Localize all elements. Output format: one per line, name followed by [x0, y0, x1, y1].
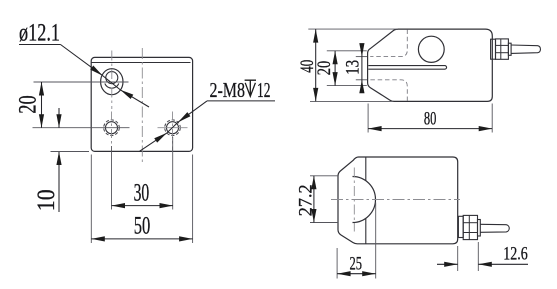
depth symbol — [245, 80, 256, 96]
body outline — [338, 157, 458, 244]
svg-text:ø12.1: ø12.1 — [19, 20, 60, 47]
small hole right horizontal centerline — [158, 127, 188, 129]
plate top inner edge line — [91, 62, 190, 64]
dimension 50 dim line — [91, 238, 192, 240]
hidden corner pocket top (dashed) — [370, 30, 407, 57]
dim 12.6 outside arrows — [437, 263, 458, 265]
plate bottom edge left extension line — [51, 151, 90, 153]
leader ø12.1 arrow segment — [61, 45, 103, 76]
small hole right vertical centerline — [172, 112, 174, 153]
dim 13 extensions — [356, 56, 367, 58]
svg-text:30: 30 — [134, 180, 150, 207]
cable gland neck (bottom view) — [478, 220, 481, 237]
small hole left outer — [104, 120, 120, 136]
boss semicircle — [353, 177, 376, 223]
dim 25 dim line — [337, 273, 376, 275]
svg-text:80: 80 — [424, 109, 437, 130]
big hole inner thread circle — [106, 72, 118, 84]
svg-text:50: 50 — [134, 213, 151, 240]
dim 12.6 extensions — [457, 246, 459, 271]
small hole left vertical centerline — [111, 112, 113, 145]
leader 2-M8 arrow segment — [178, 101, 207, 122]
leader 2-M8 underline — [207, 100, 275, 102]
dim 20 dim line — [334, 51, 336, 86]
dimension 30 dim line — [112, 205, 174, 207]
dimension 10 dim line with outside arrows — [58, 108, 60, 128]
leader 2-M8 line through hole — [167, 122, 178, 133]
dimension 50 extensions — [90, 155, 92, 244]
svg-text:27.2: 27.2 — [296, 184, 317, 216]
dim 27.2 extensions — [310, 175, 338, 177]
cable (top view) — [511, 45, 540, 53]
dim 40 dim line — [315, 29, 317, 101]
big hole vertical centerline — [111, 51, 113, 110]
svg-text:13: 13 — [342, 60, 363, 75]
hidden corner pocket bottom (dashed) — [370, 80, 407, 101]
cable gland washer (bottom view) — [458, 216, 463, 237]
cable (bottom view) — [480, 224, 509, 232]
cable gland neck (top view) — [508, 43, 511, 55]
dim 20 extensions — [327, 50, 367, 52]
small hole left inner — [106, 122, 118, 134]
svg-text:12: 12 — [257, 78, 271, 102]
dimension 20 left dim line — [41, 82, 43, 128]
dim 27.2 dim line — [313, 176, 315, 223]
svg-text:10: 10 — [33, 189, 60, 211]
horizontal centerline bottom view — [331, 199, 460, 201]
plate vertical centerline — [141, 48, 143, 164]
inner vertical edge bottom segment — [365, 219, 367, 244]
svg-text:2-M8: 2-M8 — [210, 78, 246, 102]
body outline — [368, 29, 493, 101]
leader ø12.1 line through hole — [103, 76, 121, 90]
inner vertical edge top segment — [365, 157, 367, 181]
slot bar — [368, 66, 446, 70]
dim 25 extensions — [336, 248, 338, 279]
leader ø12.1 underline — [19, 44, 61, 46]
vertical centerline boss — [353, 168, 355, 232]
svg-text:20: 20 — [314, 61, 335, 76]
circle feature — [418, 36, 444, 62]
dim 13 arrows outside — [361, 45, 363, 57]
svg-text:20: 20 — [15, 95, 42, 114]
cable gland hex nut (bottom view) — [463, 215, 477, 239]
leader ø12.1 opposite arrow tail — [120, 90, 149, 107]
svg-text:25: 25 — [349, 253, 362, 274]
dim 80 dim line — [368, 128, 492, 130]
big hole ø12.1 outer — [101, 69, 123, 95]
svg-text:12.6: 12.6 — [503, 244, 528, 265]
cable gland washer (top view) — [491, 39, 496, 59]
small hole right outer — [165, 120, 181, 136]
dim 40 bottom extension — [310, 100, 393, 102]
dimension 30 extensions — [111, 146, 113, 210]
plate outline — [91, 57, 192, 151]
leader 2-M8 opposite arrow tail — [140, 133, 167, 151]
small hole right inner — [167, 122, 179, 134]
big hole inner bottom arc — [105, 84, 119, 89]
dim 80 extensions — [367, 104, 369, 133]
dim 40 top extension / body top line — [308, 28, 397, 30]
cable gland hex nut (top view) — [496, 39, 509, 59]
small hole left horizontal centerline / 20-dim bottom extension — [33, 127, 130, 129]
big hole horizontal centerline / 20-dim top extension — [34, 81, 129, 83]
